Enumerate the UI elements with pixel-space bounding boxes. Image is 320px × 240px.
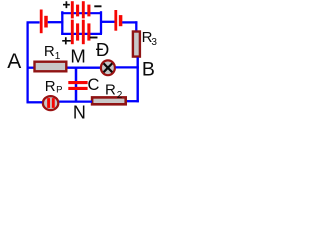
wire top-left horizontal to battery G1	[27, 21, 40, 23]
svg-text:N: N	[73, 103, 86, 123]
resistor R1 body	[35, 62, 67, 72]
battery bank row2 cell1 short plate	[76, 23, 79, 40]
plus sign top bank	[63, 1, 70, 8]
bank left connector vertical	[61, 11, 63, 34]
resistor R2 body	[92, 97, 126, 104]
wire row1 across bank	[61, 12, 102, 14]
svg-text:B: B	[142, 58, 155, 80]
wire G2 to top-right corner	[122, 21, 137, 23]
battery bank row1 cell1 long plate	[71, 1, 74, 18]
electrolytic cell RP plate 2	[52, 98, 55, 108]
battery bank row2 cell1 long plate	[71, 20, 74, 45]
capacitor C plate 1	[68, 81, 87, 84]
wire row2 across bank	[61, 33, 102, 35]
wire M branch down to capacitor and N	[75, 68, 78, 102]
svg-text:R: R	[105, 82, 116, 99]
wire lamp to B	[116, 66, 139, 68]
wire G1 to bank left connector	[48, 21, 64, 23]
capacitor C plate 2	[68, 87, 87, 90]
battery bank row1 cell1 short plate	[76, 5, 79, 17]
battery bank row1 cell2 long plate	[82, 1, 85, 18]
wire top-right corner down to R3	[135, 21, 137, 31]
wire R3 down through B to bottom-right corner	[136, 57, 138, 102]
svg-text:2: 2	[117, 90, 123, 101]
battery G1 long plate	[40, 10, 43, 34]
svg-text:M: M	[70, 45, 85, 66]
battery G2 short plate	[119, 15, 123, 26]
battery bank row2 cell2 short plate	[87, 23, 90, 40]
wire RP to bottom-left corner	[27, 101, 43, 103]
resistor R3 body	[133, 32, 140, 57]
lamp D cross stroke 1	[104, 63, 113, 72]
lamp D body	[101, 60, 115, 75]
svg-text:A: A	[7, 50, 21, 73]
electrolytic cell RP plate 1	[47, 98, 50, 108]
svg-text:R: R	[44, 43, 55, 60]
battery bank row2 cell2 long plate	[82, 20, 85, 45]
wire bank to battery G2	[101, 21, 115, 23]
plus sign bottom bank	[62, 37, 71, 44]
wire A to R1	[27, 67, 35, 69]
svg-text:3: 3	[151, 37, 157, 48]
svg-text:R: R	[45, 78, 56, 95]
battery bank row1 cell2 short plate	[87, 5, 90, 17]
svg-text:Đ: Đ	[96, 39, 109, 60]
wire left vertical A branch	[26, 23, 28, 103]
minus sign top bank	[94, 5, 101, 7]
svg-text:P: P	[56, 85, 62, 96]
battery G1 short plate	[44, 16, 48, 28]
wire R2 to node N	[59, 100, 92, 102]
svg-text:C: C	[88, 76, 100, 94]
minus sign bottom bank	[90, 37, 98, 39]
wire R1 to lamp	[68, 67, 102, 69]
lamp D cross stroke 2	[104, 63, 113, 72]
svg-text:1: 1	[55, 51, 61, 62]
electrolytic cell RP body	[43, 96, 58, 110]
battery G2 long plate	[114, 10, 117, 31]
bank right connector vertical	[100, 11, 102, 34]
wire bottom-right corner to R2	[127, 100, 139, 102]
